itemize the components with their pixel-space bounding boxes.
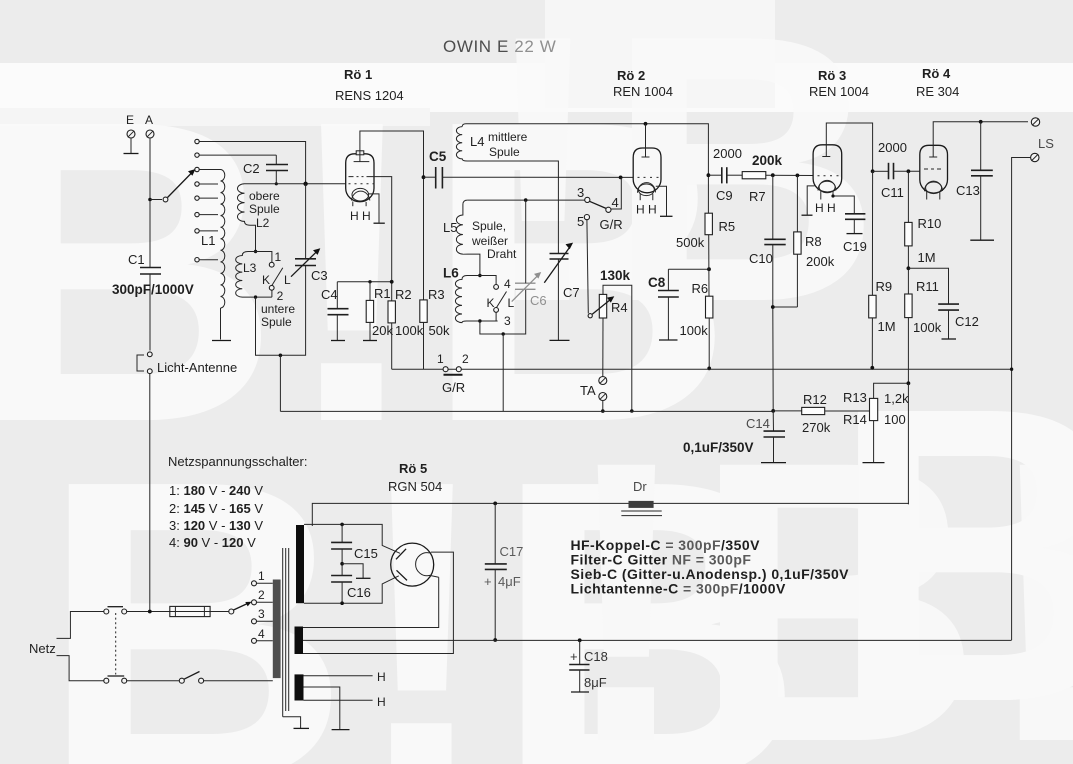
node lower bus tap xyxy=(279,354,283,358)
filament xyxy=(637,183,655,193)
L6 bottom to lower bus xyxy=(480,289,526,334)
node C10 xyxy=(771,173,775,177)
svg-text:3: 3 xyxy=(258,607,265,621)
capacitor value notes xyxy=(571,537,850,597)
svg-text:200k: 200k xyxy=(752,153,783,168)
node Roe2 anode xyxy=(644,122,648,126)
filament left to chassis xyxy=(807,186,814,215)
wire LS bottom to right-edge vertical xyxy=(1012,158,1031,641)
node C10/R8 xyxy=(771,305,775,309)
terminal TA lower xyxy=(599,393,607,401)
svg-text:2: 2 xyxy=(258,588,265,602)
svg-text:2: 145 V - 165 V: 2: 145 V - 165 V xyxy=(169,501,263,516)
svg-text:1: 1 xyxy=(437,352,444,366)
capacitor C18 8uF electrolytic xyxy=(579,640,581,664)
L1 taps xyxy=(195,139,199,262)
svg-text:C7: C7 xyxy=(563,285,580,300)
svg-text:C4: C4 xyxy=(321,287,338,302)
wire to band switch xyxy=(150,199,162,201)
control grid dots xyxy=(349,183,375,185)
svg-text:G/R: G/R xyxy=(600,217,623,232)
svg-text:R2: R2 xyxy=(395,287,412,302)
voltage selector arm xyxy=(229,609,234,614)
svg-text:270k: 270k xyxy=(802,420,831,435)
svg-text:R7: R7 xyxy=(749,189,766,204)
svg-text:L3: L3 xyxy=(243,261,257,275)
grid wire C5 to Roe2 xyxy=(442,176,633,178)
mains switch bottom xyxy=(127,680,180,682)
gang link dotted xyxy=(115,613,117,675)
tube Roe4 envelope xyxy=(920,145,948,193)
node C5 junction xyxy=(422,175,426,179)
node C14/R12 xyxy=(771,409,775,413)
svg-text:4: 90 V - 120 V: 4: 90 V - 120 V xyxy=(169,535,256,550)
rectifier filament winding xyxy=(295,627,304,655)
svg-text:H H: H H xyxy=(350,209,371,223)
switch G/R contact 4 xyxy=(606,207,611,212)
svg-text:1: 1 xyxy=(258,569,265,583)
svg-text:R14: R14 xyxy=(843,412,867,427)
box bottom edge xyxy=(256,266,306,356)
node R8 xyxy=(796,174,800,178)
svg-text:E: E xyxy=(126,113,134,127)
wire Licht-Antenne down to mains switch xyxy=(149,374,151,612)
node C17 xyxy=(493,502,497,506)
grid dots xyxy=(638,176,659,178)
svg-text:2: 2 xyxy=(462,352,469,366)
svg-text:LS: LS xyxy=(1038,136,1054,151)
wire winding to Roe5 filament right xyxy=(303,552,453,653)
svg-text:REN 1004: REN 1004 xyxy=(809,84,869,99)
screen wire right down to R2 xyxy=(371,177,392,301)
svg-text:Draht: Draht xyxy=(487,247,517,261)
svg-text:RGN 504: RGN 504 xyxy=(388,479,442,494)
svg-text:200k: 200k xyxy=(806,254,835,269)
svg-text:C6: C6 xyxy=(530,293,547,308)
svg-text:1,2k: 1,2k xyxy=(884,391,909,406)
K/L arm xyxy=(497,292,507,308)
tube Roe2 envelope xyxy=(633,148,661,193)
node C13 xyxy=(979,120,983,124)
anode bar xyxy=(354,161,370,163)
svg-text:C3: C3 xyxy=(311,268,328,283)
bias bus wire xyxy=(392,368,1012,370)
svg-text:1: 1 xyxy=(275,250,282,264)
wire heater H bottom xyxy=(304,699,373,701)
svg-text:Spule: Spule xyxy=(249,202,280,216)
svg-text:+: + xyxy=(484,574,492,589)
svg-text:L1: L1 xyxy=(201,233,215,248)
svg-text:Netzspannungsschalter:: Netzspannungsschalter: xyxy=(168,454,307,469)
anode wire and top bus to C11 xyxy=(826,123,872,171)
svg-text:R10: R10 xyxy=(918,216,942,231)
wire A down xyxy=(149,138,151,267)
node C11 left xyxy=(871,169,875,173)
anode wire up and over to C5 xyxy=(360,131,424,300)
svg-text:50k: 50k xyxy=(429,323,450,338)
svg-text:R12: R12 xyxy=(803,392,827,407)
node C9 xyxy=(707,173,711,177)
core earth xyxy=(283,717,301,728)
svg-text:Rö 1: Rö 1 xyxy=(344,67,372,82)
filament right to C19 xyxy=(833,196,854,214)
ground E xyxy=(130,138,132,154)
terminal LS bottom xyxy=(1031,153,1039,161)
grid wire to Roe1 xyxy=(245,183,346,185)
svg-text:obere: obere xyxy=(249,189,280,203)
chassis stub at C15/C16 xyxy=(342,564,363,578)
svg-text:R5: R5 xyxy=(719,219,736,234)
node grid/C3 xyxy=(303,182,307,186)
node Licht-Antenne joins xyxy=(148,610,152,614)
heater winding xyxy=(295,674,304,700)
svg-text:H: H xyxy=(377,670,386,684)
node C15 top xyxy=(340,523,344,527)
wire R13/R14 node down to Dr line xyxy=(907,383,909,504)
cathode node line C4/R1/R2 xyxy=(337,282,391,309)
node L2/L3 xyxy=(254,250,257,253)
terminal TA upper xyxy=(599,377,607,385)
svg-text:3: 3 xyxy=(577,185,584,200)
wire heater mid to ground xyxy=(304,687,340,729)
switch contact 2 xyxy=(269,285,274,290)
svg-text:C5: C5 xyxy=(429,149,447,164)
screen grid dashes xyxy=(349,176,371,178)
svg-text:Spule: Spule xyxy=(489,145,520,159)
filament xyxy=(924,181,942,191)
wire tap2 to C2 xyxy=(199,154,276,156)
svg-text:L: L xyxy=(284,273,291,287)
svg-text:Lichtantenne-C = 300pF/1000V: Lichtantenne-C = 300pF/1000V xyxy=(571,581,787,597)
svg-text:Spule: Spule xyxy=(261,315,292,329)
svg-text:R9: R9 xyxy=(876,279,893,294)
svg-text:100: 100 xyxy=(884,412,906,427)
anode 1 plate xyxy=(396,549,406,560)
L4 top bus to Roe2 anode xyxy=(462,124,708,175)
svg-text:Rö 2: Rö 2 xyxy=(617,68,645,83)
svg-text:130k: 130k xyxy=(600,268,631,283)
node A/C1 xyxy=(148,198,152,202)
title OWIN E 22 W xyxy=(443,37,556,56)
svg-text:4: 4 xyxy=(258,627,265,641)
svg-text:G/R: G/R xyxy=(442,380,465,395)
svg-text:C1: C1 xyxy=(128,252,145,267)
mains prong top xyxy=(57,612,104,639)
svg-text:4μF: 4μF xyxy=(498,574,521,589)
svg-text:C15: C15 xyxy=(354,546,378,561)
svg-text:C10: C10 xyxy=(749,251,773,266)
top edge L5 box to contact 3 xyxy=(467,199,585,201)
wire to fuse xyxy=(127,611,229,613)
node R10/R11/C12 xyxy=(907,266,911,270)
filament legs xyxy=(352,202,354,207)
fuse xyxy=(170,606,210,616)
wire C10/R8 bottom join, down to C14 xyxy=(773,307,798,411)
svg-text:Dr: Dr xyxy=(633,479,647,494)
svg-text:K: K xyxy=(487,296,495,310)
svg-text:OWIN E 22 W: OWIN E 22 W xyxy=(443,37,556,56)
svg-text:8μF: 8μF xyxy=(584,675,607,690)
svg-text:R1: R1 xyxy=(374,286,391,301)
filament right to chassis xyxy=(656,186,667,216)
svg-text:H H: H H xyxy=(815,201,836,215)
svg-text:4: 4 xyxy=(504,277,511,291)
wire heater H top xyxy=(304,675,373,677)
anode wire and top bus to LS xyxy=(933,122,1028,157)
svg-text:Rö 4: Rö 4 xyxy=(922,66,951,81)
svg-text:Netz: Netz xyxy=(29,641,56,656)
svg-text:C11: C11 xyxy=(881,185,904,200)
filament xyxy=(818,180,836,190)
tube Roe3 envelope xyxy=(813,145,842,192)
terminal LS top xyxy=(1031,118,1039,126)
svg-text:C19: C19 xyxy=(843,239,867,254)
wire anode line down through R9 xyxy=(871,171,873,295)
tube Roe1 envelope xyxy=(346,154,374,202)
interrupter contacts top xyxy=(104,609,109,614)
wire down to TA bus xyxy=(279,355,281,411)
svg-text:C18: C18 xyxy=(584,649,608,664)
anode wire xyxy=(645,124,647,157)
svg-text:C17: C17 xyxy=(500,544,524,559)
centre-tap return wire xyxy=(303,639,1012,641)
svg-text:1: 180 V - 240 V: 1: 180 V - 240 V xyxy=(169,483,263,498)
svg-text:RENS 1204: RENS 1204 xyxy=(335,88,404,103)
svg-text:C13: C13 xyxy=(956,183,980,198)
svg-text:TA: TA xyxy=(580,383,596,398)
G/R bar xyxy=(444,374,463,376)
svg-text:B: B xyxy=(830,321,1073,764)
grid dots xyxy=(818,175,839,177)
svg-text:H H: H H xyxy=(636,203,657,217)
core laminations xyxy=(282,548,284,717)
svg-text:3: 3 xyxy=(504,314,511,328)
primary winding xyxy=(273,580,281,679)
node L6 bottom xyxy=(478,319,481,322)
svg-text:C12: C12 xyxy=(955,314,979,329)
C8 top wire to R5/R6 node xyxy=(668,268,709,270)
wire winding to Roe5 filament left xyxy=(303,577,439,627)
svg-text:300pF/1000V: 300pF/1000V xyxy=(112,282,194,297)
svg-text:A: A xyxy=(145,113,153,127)
svg-text:100k: 100k xyxy=(680,323,709,338)
svg-text:0,1uF/350V: 0,1uF/350V xyxy=(683,440,754,455)
svg-text:REN 1004: REN 1004 xyxy=(613,84,673,99)
svg-text:L6: L6 xyxy=(443,266,459,281)
contact 3 of K/L xyxy=(494,308,499,313)
node C2/grid xyxy=(275,182,278,185)
svg-text:500k: 500k xyxy=(676,235,705,250)
svg-text:untere: untere xyxy=(261,302,295,316)
svg-text:1M: 1M xyxy=(878,319,896,334)
interrupter contacts bottom xyxy=(104,678,109,683)
svg-text:RE 304: RE 304 xyxy=(916,84,959,99)
svg-text:Spule,: Spule, xyxy=(472,219,506,233)
svg-text:2: 2 xyxy=(277,289,284,303)
svg-text:C9: C9 xyxy=(716,188,733,203)
HV secondary winding xyxy=(296,525,304,603)
HV bottom wire to Roe5 anode 2 xyxy=(304,576,399,603)
chassis bar under L1 xyxy=(212,340,231,342)
svg-text:C2: C2 xyxy=(243,161,260,176)
svg-text:L: L xyxy=(508,296,515,310)
svg-text:4: 4 xyxy=(612,195,619,210)
wire tap1 to grid node xyxy=(199,142,305,184)
svg-text:mittlere: mittlere xyxy=(488,130,528,144)
node C15/C16 mid xyxy=(340,562,344,566)
node C18 xyxy=(578,638,582,642)
svg-text:C14: C14 xyxy=(746,416,770,431)
filament right to chassis bar xyxy=(369,194,380,223)
wire contact 4 to Roe2 grid xyxy=(611,177,621,209)
svg-text:L5: L5 xyxy=(443,220,457,235)
svg-text:2000: 2000 xyxy=(713,146,742,161)
Licht-Antenne terminals xyxy=(147,352,152,357)
B+ wire from transformer to Dr to bias network xyxy=(312,503,908,526)
anode 2 plate xyxy=(397,570,408,580)
svg-text:weißer: weißer xyxy=(471,234,508,248)
svg-text:Rö 3: Rö 3 xyxy=(818,68,846,83)
svg-text:R13: R13 xyxy=(843,390,867,405)
filament dome xyxy=(352,191,370,200)
wire contact5 down to R4 wiper xyxy=(587,220,588,314)
svg-text:Licht-Antenne: Licht-Antenne xyxy=(157,360,237,375)
svg-text:2000: 2000 xyxy=(878,140,907,155)
svg-text:100k: 100k xyxy=(395,323,424,338)
svg-text:100k: 100k xyxy=(913,320,942,335)
svg-text:R8: R8 xyxy=(805,234,822,249)
svg-text:R6: R6 xyxy=(692,281,709,296)
switch K/L arm xyxy=(272,268,283,286)
tap wires to L1 xyxy=(199,170,220,260)
svg-text:L2: L2 xyxy=(256,216,270,230)
envelope xyxy=(391,543,434,586)
svg-text:R3: R3 xyxy=(428,287,445,302)
svg-text:K: K xyxy=(262,273,270,287)
grid dashes xyxy=(924,168,941,170)
node bias bus / LS return xyxy=(1010,368,1013,371)
node switch contact 4 branch xyxy=(619,176,623,180)
svg-text:3: 120 V - 130 V: 3: 120 V - 130 V xyxy=(169,518,263,533)
mains prong bottom xyxy=(57,656,104,681)
svg-text:C8: C8 xyxy=(648,275,666,290)
band switch arm xyxy=(163,197,168,202)
svg-text:20k: 20k xyxy=(372,323,393,338)
svg-text:H: H xyxy=(377,695,386,709)
svg-text:1M: 1M xyxy=(918,250,936,265)
node Roe4 grid / R10 xyxy=(907,169,911,173)
svg-text:C16: C16 xyxy=(347,585,371,600)
node L5/L6 xyxy=(478,274,481,277)
svg-text:+: + xyxy=(570,649,578,664)
TA bus wire xyxy=(280,410,773,412)
svg-text:Rö 5: Rö 5 xyxy=(399,461,427,476)
switch G/R arm 3-4 xyxy=(590,201,607,208)
top cap pin xyxy=(356,151,364,155)
node L3 bottom xyxy=(254,295,257,298)
svg-text:5: 5 xyxy=(577,214,584,229)
svg-text:L4: L4 xyxy=(470,134,484,149)
filament arc xyxy=(416,553,439,578)
HV top wire to Roe5 anode 1 xyxy=(304,524,400,553)
svg-text:R11: R11 xyxy=(916,279,939,294)
svg-text:R4: R4 xyxy=(611,300,628,315)
